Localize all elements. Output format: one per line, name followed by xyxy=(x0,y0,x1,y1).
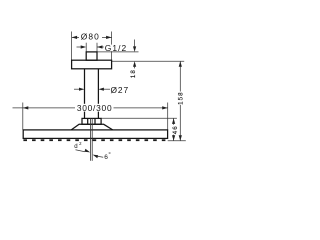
svg-text:158: 158 xyxy=(177,91,184,104)
svg-text:18: 18 xyxy=(130,69,137,78)
svg-text:d: d xyxy=(74,143,77,150)
svg-text:46: 46 xyxy=(172,125,179,134)
svg-text:Ø80: Ø80 xyxy=(81,32,100,42)
svg-text:300/300: 300/300 xyxy=(77,103,113,113)
svg-text:Ø27: Ø27 xyxy=(111,85,130,95)
svg-text:G1/2: G1/2 xyxy=(105,43,127,53)
